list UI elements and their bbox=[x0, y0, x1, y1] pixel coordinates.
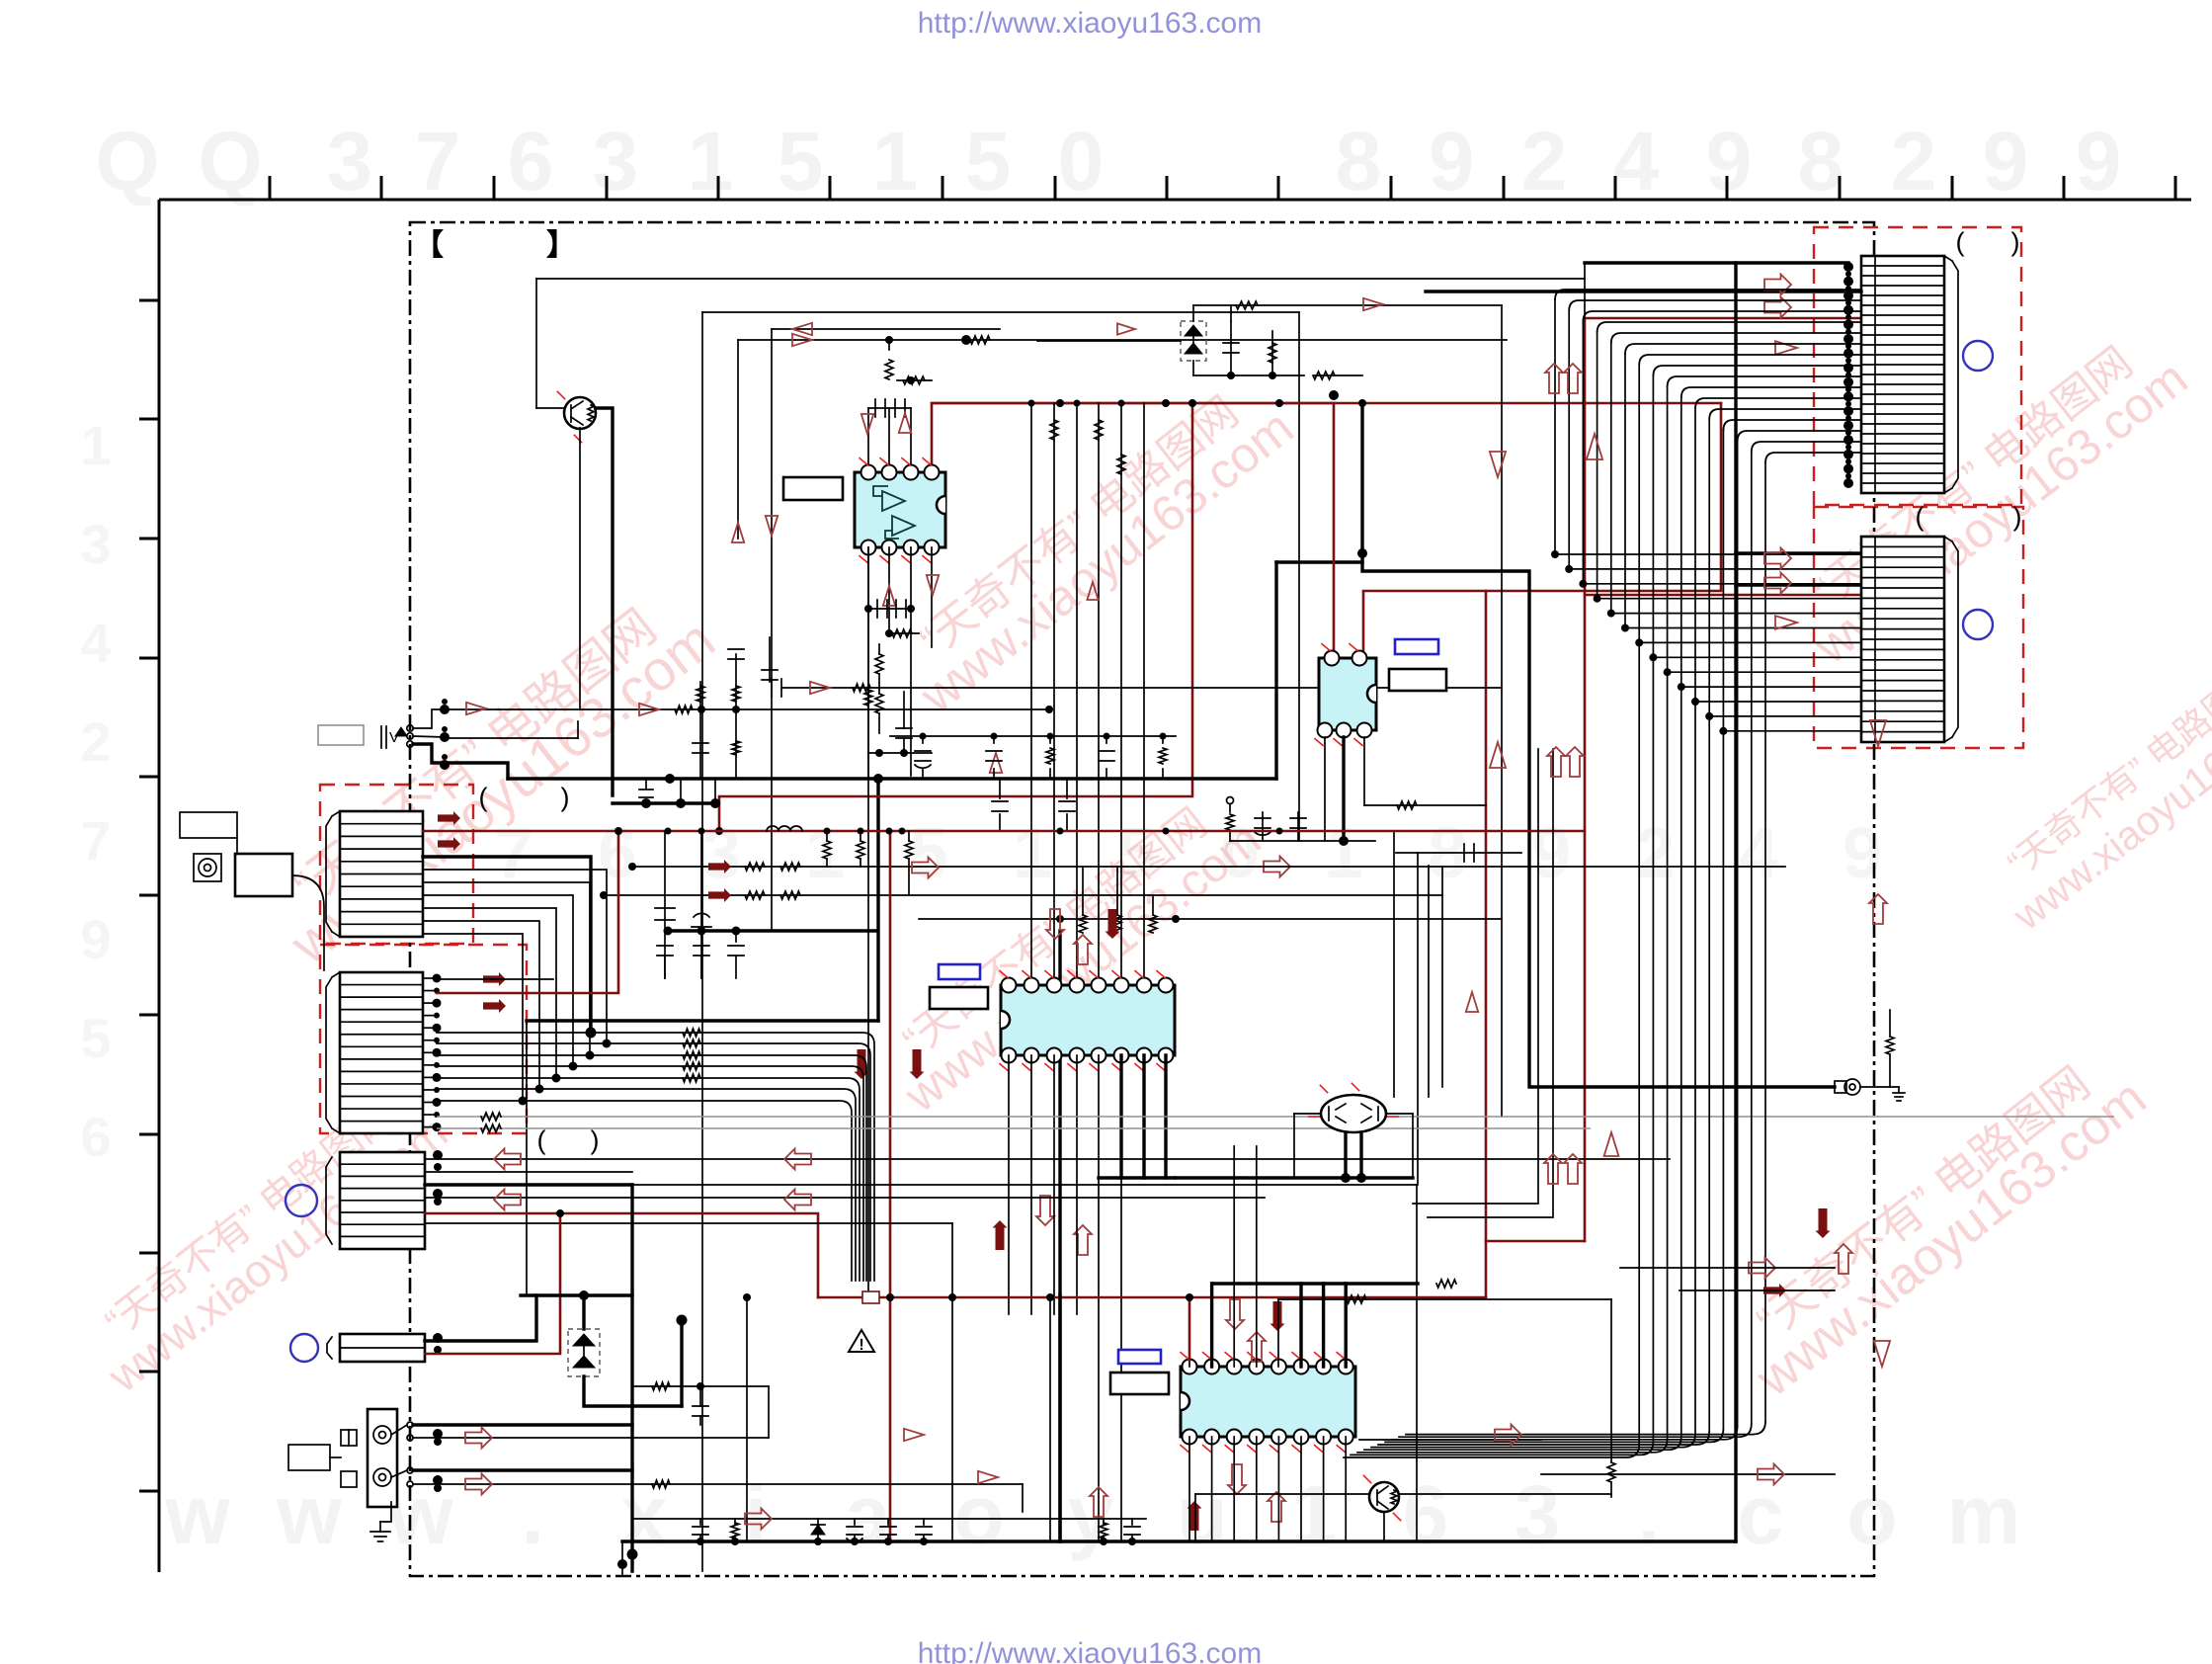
svg-text:】: 】 bbox=[546, 229, 576, 262]
svg-text:7: 7 bbox=[80, 809, 111, 872]
svg-text:1: 1 bbox=[1013, 814, 1052, 893]
svg-text:5: 5 bbox=[778, 115, 824, 208]
svg-text:1: 1 bbox=[1291, 1468, 1338, 1561]
svg-text:4: 4 bbox=[1739, 814, 1778, 893]
svg-text:8: 8 bbox=[1428, 814, 1467, 893]
svg-text:(: ( bbox=[1916, 502, 1925, 532]
svg-text:.: . bbox=[521, 1468, 543, 1561]
svg-text:http://www.xiaoyu163.com: http://www.xiaoyu163.com bbox=[918, 1637, 1263, 1664]
svg-text:Q: Q bbox=[198, 115, 262, 208]
svg-text:!: ! bbox=[859, 1337, 863, 1354]
svg-text:(: ( bbox=[537, 1125, 546, 1155]
svg-text:): ) bbox=[561, 783, 570, 812]
svg-text:2: 2 bbox=[1521, 115, 1568, 208]
svg-text:2: 2 bbox=[80, 710, 111, 773]
svg-text:5: 5 bbox=[909, 814, 948, 893]
svg-text:(: ( bbox=[1956, 227, 1965, 257]
svg-text:.: . bbox=[1637, 1468, 1660, 1561]
svg-text:): ) bbox=[591, 1125, 600, 1155]
svg-text:5: 5 bbox=[965, 115, 1012, 208]
svg-text:1: 1 bbox=[80, 414, 111, 476]
svg-text:3: 3 bbox=[593, 115, 639, 208]
svg-text:): ) bbox=[2011, 227, 2020, 257]
svg-text:w: w bbox=[164, 1468, 230, 1561]
svg-text:w: w bbox=[276, 1468, 342, 1561]
svg-text:3: 3 bbox=[80, 513, 111, 575]
svg-text:9: 9 bbox=[1429, 115, 1475, 208]
svg-text:7: 7 bbox=[415, 115, 461, 208]
svg-text:3: 3 bbox=[327, 115, 373, 208]
svg-text:9: 9 bbox=[80, 908, 111, 970]
svg-text:): ) bbox=[2013, 502, 2022, 532]
svg-text:1: 1 bbox=[688, 115, 734, 208]
svg-text:a: a bbox=[845, 1468, 892, 1561]
svg-text:9: 9 bbox=[1983, 115, 2029, 208]
svg-text:4: 4 bbox=[1613, 115, 1660, 208]
svg-text:2: 2 bbox=[1891, 115, 1937, 208]
svg-text:6: 6 bbox=[1403, 1468, 1449, 1561]
svg-text:2: 2 bbox=[1635, 814, 1675, 893]
svg-text:3: 3 bbox=[701, 814, 741, 893]
svg-text:9: 9 bbox=[1706, 115, 1753, 208]
svg-text:1: 1 bbox=[872, 115, 919, 208]
svg-text:9: 9 bbox=[1843, 814, 1882, 893]
svg-text:8: 8 bbox=[1798, 115, 1844, 208]
svg-text:0: 0 bbox=[1058, 115, 1105, 208]
svg-text:3: 3 bbox=[1515, 1468, 1561, 1561]
svg-text:m: m bbox=[1947, 1468, 2021, 1561]
svg-text:9: 9 bbox=[2076, 115, 2122, 208]
svg-text:y: y bbox=[1068, 1468, 1114, 1561]
svg-text:4: 4 bbox=[80, 612, 111, 674]
svg-text:Q: Q bbox=[95, 115, 159, 208]
svg-text:(: ( bbox=[479, 783, 488, 812]
svg-text:8: 8 bbox=[1336, 115, 1382, 208]
svg-text:【: 【 bbox=[414, 229, 444, 262]
svg-text:o: o bbox=[1846, 1468, 1897, 1561]
svg-text:x: x bbox=[621, 1468, 668, 1561]
svg-text:5: 5 bbox=[80, 1007, 111, 1069]
svg-text:1: 1 bbox=[805, 814, 845, 893]
svg-text:6: 6 bbox=[508, 115, 554, 208]
svg-text:6: 6 bbox=[80, 1106, 111, 1168]
svg-text:9: 9 bbox=[1531, 814, 1571, 893]
svg-text:u: u bbox=[1177, 1468, 1227, 1561]
svg-text:http://www.xiaoyu163.com: http://www.xiaoyu163.com bbox=[918, 7, 1263, 40]
